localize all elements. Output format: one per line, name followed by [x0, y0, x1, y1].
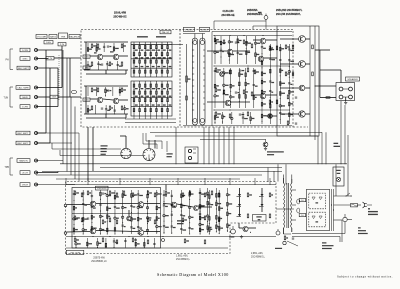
svg-text:2SB4/NA: 2SB4/NA [247, 9, 258, 12]
resistor R33 [251, 44, 253, 48]
capacitor C3 [101, 63, 103, 65]
rectifier left label box 1 [299, 199, 306, 202]
fuse F1 [351, 204, 358, 207]
preamp/tone dashed enclosure [81, 30, 293, 128]
transformer under cluster [284, 233, 292, 235]
wire eq stage [90, 55, 97, 57]
rotary switch S1 [121, 148, 131, 158]
resistor R61 [81, 193, 83, 197]
svg-text:2SC/,58 2SA560MO'L: 2SC/,58 2SA560MO'L [276, 13, 301, 16]
relay contact pair [297, 199, 300, 204]
wire nested routing to switches [142, 133, 144, 144]
diode D5 [261, 204, 264, 207]
wire tuner bus [36, 87, 62, 89]
resistor R70 [81, 218, 83, 222]
resistor R2 block [58, 43, 66, 46]
power amp bottom rail [66, 236, 276, 238]
svg-text:1,9B1,-A06,: 1,9B1,-A06, [176, 255, 188, 258]
resistor R46 [215, 112, 217, 116]
svg-text:2SC458MO,LC: 2SC458MO,LC [91, 261, 107, 263]
tone ladder low bus [131, 67, 172, 69]
resistor R1 block [46, 57, 54, 60]
balance control line [186, 44, 188, 125]
phono input jack J1 [35, 49, 38, 52]
svg-text:PAL-S2: PAL-S2 [162, 31, 170, 34]
resistor R51 [292, 45, 294, 49]
q23 ground [241, 235, 243, 236]
svg-text:MAIN IN: MAIN IN [19, 159, 28, 162]
svg-text:PH: PH [6, 60, 10, 62]
resistor R89 [247, 193, 249, 197]
power transistor Q15 [299, 111, 305, 117]
transistor Q11 [268, 114, 273, 119]
power amp low area [74, 238, 76, 242]
resistor R90 [269, 193, 271, 197]
resistor R83 [204, 193, 206, 197]
dc balance jack [231, 229, 236, 234]
resistor R12 [121, 88, 123, 92]
resistor R32 [243, 40, 245, 44]
resistor R5 [97, 44, 99, 48]
resistor R37 [229, 70, 231, 74]
tape monitor slide switch track 2 [200, 38, 205, 125]
speaker switch text [167, 153, 173, 154]
emitter resistor R55 [312, 45, 314, 49]
AC plug symbol [363, 202, 365, 208]
capacitor C21 [87, 217, 89, 219]
tone pot VR4 [150, 42, 152, 77]
resistor R87 [204, 216, 206, 220]
capacitor C22 electrolytic [162, 239, 165, 242]
wire eq bottom rail [84, 69, 128, 71]
long horizontal bus y179 [56, 178, 240, 180]
supply vertical feeds [335, 164, 337, 196]
transistor Q1 [97, 54, 103, 60]
resistor R68 [154, 193, 156, 197]
wire vertical bus v1 [45, 50, 47, 133]
diode D3 [238, 214, 241, 217]
rectifier diode D13 [319, 216, 322, 219]
diode string wire 2 [261, 188, 263, 194]
long horizontal bus y175 [36, 174, 262, 176]
capacitor C11 [239, 69, 241, 71]
tone pot VR3 [144, 42, 146, 77]
tape monitor label boxes [17, 159, 30, 163]
driver lower cluster [214, 112, 216, 124]
resistor R36 [215, 68, 217, 72]
resistor R10 [91, 88, 93, 92]
power amp wiring ch1 [67, 204, 90, 206]
transformer leads [283, 178, 285, 183]
resistor R64 [116, 193, 118, 197]
resistor R42 [243, 90, 245, 94]
resistor R13 [91, 106, 93, 110]
tone pot VR7 [167, 42, 169, 77]
eq left value boxes [83, 55, 90, 58]
tone pot VR14 [167, 81, 169, 116]
svg-text:BALANCE: BALANCE [69, 36, 80, 39]
svg-text:1RCH: 1RCH [22, 184, 28, 186]
long horizontal bus y171 [42, 171, 282, 173]
driver section frame [211, 32, 213, 127]
tone control 2nd channel frame [131, 81, 172, 116]
capacitor C100 reservoir [264, 16, 268, 20]
bus vertical mid [175, 127, 177, 164]
power amp box label text [177, 220, 184, 221]
transistor Q30 below preamp [263, 142, 268, 147]
input connector P2 [64, 232, 67, 235]
tape monitor slide switch track 1 [192, 38, 197, 125]
svg-text:2SB75-NW: 2SB75-NW [93, 257, 105, 259]
tone pot VR6 [161, 42, 163, 77]
transistor Q2 [113, 54, 119, 60]
eq ch1 lower cluster [87, 61, 89, 70]
rectifier left label box 2 [299, 214, 306, 217]
tape monitor group bracket [9, 158, 11, 175]
speaker terminal T4 [349, 95, 353, 99]
resistor R65 [123, 191, 125, 195]
capacitor C5 [101, 107, 103, 109]
power amp under-rail components [75, 238, 77, 248]
resistor R34 [269, 46, 271, 50]
svg-text:2SC456MO,L: 2SC456MO,L [251, 256, 266, 258]
capacitor C10 [235, 41, 237, 43]
preset label box on top edge [160, 30, 171, 34]
tone ladder top bus [131, 44, 172, 46]
tuner input label boxes [16, 86, 30, 90]
rectifier dashed box 2 [309, 212, 326, 227]
return wire bracket [292, 233, 345, 235]
switch text right [358, 227, 361, 228]
power amplifier dashed enclosure [66, 182, 277, 254]
capacitor C14 [295, 96, 297, 98]
resistor R11 [97, 88, 99, 92]
rectifier text [315, 202, 318, 203]
svg-text:2SC499-SC: 2SC499-SC [113, 15, 127, 18]
wire bus y139 [200, 139, 266, 141]
transistor Q9 [258, 56, 264, 62]
bus vertical left pair [87, 127, 89, 181]
transistor Q22 [194, 206, 199, 211]
svg-text:BASS: BASS [50, 36, 56, 39]
power amp top rail [66, 184, 276, 186]
speaker terminal box [336, 83, 355, 101]
emitter resistor R56 [312, 72, 314, 76]
thermal breaker Q31 [343, 217, 347, 221]
resistor R81 [182, 193, 184, 197]
resistor R31 [223, 40, 225, 44]
line out jack circle 1 [276, 231, 280, 235]
transistor Q8 [260, 38, 266, 44]
svg-text:REC SEPT: REC SEPT [18, 68, 30, 70]
power amp ch2 extra cluster [199, 188, 201, 232]
transistor Q5 [227, 49, 233, 55]
tone pot VR9 [139, 81, 141, 116]
driver output coupling cluster [261, 44, 263, 124]
tone pot VR8 [133, 81, 135, 116]
svg-text:VOLUME: VOLUME [37, 37, 47, 39]
eq stage labels [94, 52, 97, 53]
wire eq2 wiring [90, 98, 97, 100]
tone ladder mid bus [131, 58, 172, 60]
tape rec jack J7 [35, 132, 38, 135]
power amp ch2 cluster [163, 190, 165, 234]
speaker terminal T1 [339, 87, 343, 91]
mains transformer core [286, 183, 288, 228]
driver ch2 component cluster [214, 68, 216, 108]
mains transformer T1 primary winding [284, 183, 285, 187]
resistor R86 [182, 218, 184, 222]
resistor R63 [109, 191, 111, 195]
output stage wiring [280, 38, 299, 40]
speaker terminal wiring [343, 88, 349, 90]
transistor Q4 [113, 98, 119, 104]
AC mains text [368, 208, 370, 209]
diode D4 [261, 194, 264, 197]
resistor R84 [211, 191, 213, 195]
transistor Q16 [90, 201, 96, 207]
pilot lamp box [333, 167, 344, 186]
q23 wiring [238, 223, 240, 228]
rectifier right feed lines [331, 189, 333, 231]
output node wire [314, 85, 315, 86]
power switch S3 [346, 193, 350, 196]
svg-text:1CPB: 1CPB [22, 50, 28, 52]
resistor R38 [247, 68, 249, 72]
tone bottom stubs [133, 116, 135, 119]
tone pot VR5 [155, 42, 157, 77]
tone pot VR13 [161, 81, 163, 116]
resistor R62 [87, 191, 89, 195]
resistor R72 [109, 218, 111, 222]
resistor R85 [218, 193, 220, 197]
resistor R60 [74, 191, 76, 195]
resistor R91 [247, 214, 249, 218]
svg-text:TPB: TPB [5, 167, 10, 169]
phones jack assembly [185, 147, 198, 163]
tone block bottom bus [125, 118, 176, 120]
eq2 feedback wires [105, 114, 107, 118]
long horizontal bus y164 [60, 163, 347, 165]
capacitor C14b [295, 122, 297, 124]
svg-text:TRE: TRE [61, 37, 66, 39]
aux out jack J11 [35, 183, 38, 186]
supply down verticals [325, 132, 327, 164]
rectifier dashed box 1 [309, 193, 326, 209]
tone pot VR10 [144, 81, 146, 116]
output stage frame [277, 26, 319, 136]
resistor R40 [215, 88, 217, 92]
tone pot VR11 [150, 81, 152, 116]
switch S2 wiper [148, 155, 150, 161]
coupling component oval [71, 90, 76, 93]
svg-text:1MIC: 1MIC [22, 58, 28, 60]
tone 2nd channel buses [131, 96, 172, 98]
resistor R30 [215, 40, 217, 44]
resistor R6 [121, 44, 123, 48]
transistor Q19 [138, 230, 144, 236]
driver junction dots [214, 35, 215, 36]
svg-text:Schematic Diagram of Model: Schematic Diagram of Model X100 [157, 272, 229, 277]
resistor R39 [254, 70, 256, 74]
long horizontal bus y149 [52, 148, 121, 150]
part text 2SC1090 [334, 143, 339, 144]
eq ch2 upper cluster [87, 87, 89, 96]
resistor R67 [147, 191, 149, 195]
svg-text:CALL TAPE: CALL TAPE [17, 86, 29, 89]
resistor R7 [91, 62, 93, 66]
resistor R82 [189, 191, 191, 195]
rotary switch S2 [143, 149, 155, 161]
control label boxes row [36, 35, 47, 39]
thermal amp label box [253, 215, 267, 222]
svg-text:2SB,2SD 2SC553MO'L: 2SB,2SD 2SC553MO'L [276, 9, 303, 12]
driver ch1 component cluster [214, 36, 216, 64]
resistor R52 [285, 72, 287, 76]
wire output loop top [252, 26, 254, 30]
resistor R71 [102, 220, 104, 224]
resistor R47 [229, 114, 231, 118]
transformer secondary taps [292, 189, 296, 191]
wire lower feed right [277, 164, 279, 181]
svg-text:2,9B1,-A06,: 2,9B1,-A06, [251, 252, 263, 255]
tape rec label boxes [16, 131, 30, 135]
resistor R50 [285, 45, 287, 49]
driver wiring ch1 [207, 50, 227, 52]
rectifier diode D10 [312, 197, 315, 200]
wire jack risers [61, 50, 63, 88]
diode D1 [238, 194, 241, 197]
svg-text:REC SEPT: REC SEPT [18, 143, 30, 145]
tape rec jack J8 [35, 142, 38, 145]
svg-text:LPF-100M: LPF-100M [70, 253, 80, 255]
wire eq top rail [84, 41, 128, 43]
wire phono bus [36, 49, 62, 51]
svg-text:2SD382NHFL: 2SD382NHFL [247, 13, 263, 16]
capacitor C4 [107, 89, 109, 91]
speaker ground [345, 101, 347, 102]
tone control block frame [131, 42, 172, 77]
diode string wire [239, 188, 241, 194]
driver low rail [214, 109, 290, 111]
svg-text:2SC456MO,L: 2SC456MO,L [176, 259, 191, 261]
aux out label box [20, 183, 30, 187]
eq ch2 lower cluster [87, 105, 89, 114]
transistor Q3 [97, 97, 103, 103]
rectifier diode D11 [319, 197, 322, 200]
power amp inner frame [72, 188, 161, 249]
driver board label box [96, 186, 109, 190]
tone section dashed divider [179, 30, 181, 128]
wire jack group D to bus [36, 160, 63, 162]
svg-text:2LCH: 2LCH [22, 172, 28, 174]
transistor Q18 [90, 228, 96, 234]
wire switch feed top [183, 33, 205, 35]
transistor Q7 [225, 100, 231, 106]
svg-text:SPEAKER: SPEAKER [347, 78, 358, 81]
wire eq2 bottom rail [84, 113, 128, 115]
bus corner bends [51, 143, 53, 149]
wire AC cord [367, 204, 372, 206]
wire switch risers [125, 136, 127, 148]
small box above jacks [44, 41, 53, 44]
resistor R69 [74, 216, 76, 220]
tape monitor jack J9 [35, 159, 38, 162]
switch section text [101, 145, 108, 146]
resistor R53 [292, 72, 294, 76]
svg-text:TUN: TUN [4, 98, 9, 100]
power amp rail stub dots [75, 236, 76, 237]
resistor R48 [247, 112, 249, 116]
right channel wiring [163, 203, 171, 206]
driver wiring ch2 [207, 101, 225, 103]
long horizontal bus y155 [60, 155, 143, 157]
left riser bus wires [62, 50, 64, 164]
transistor Q10 [260, 93, 266, 99]
speaker terminal T3 [339, 95, 343, 99]
switch label box PRESS [184, 27, 195, 31]
tuner input jack J4 [35, 86, 38, 89]
power amp bottom label box [66, 250, 84, 254]
resistor R44 [269, 100, 271, 104]
tape rec wire extensions [36, 132, 79, 134]
eq ch1 upper cluster [87, 43, 89, 52]
resistor R4 [91, 44, 93, 48]
resistor R43 [251, 92, 253, 96]
resistor R9 [121, 62, 123, 66]
eq2 left value boxes [83, 98, 90, 101]
capacitor C2 [107, 45, 109, 47]
power amp ch1 cluster [73, 190, 75, 234]
supply horizontal feeds [334, 195, 353, 197]
transistor Q6 [220, 72, 225, 77]
tape monitor jack J10 [35, 171, 38, 174]
rectifier diode D12 [312, 216, 315, 219]
wire J11 [36, 184, 75, 186]
rectifier board solid frame [307, 189, 330, 230]
bus verticals preamp to switch row [203, 127, 205, 164]
speaker terminal T2 [349, 87, 353, 91]
resistor R15 [121, 106, 123, 110]
eq feedback wires [105, 70, 107, 74]
wire tone to driver [172, 44, 183, 46]
svg-text:2SA6,-NW: 2SA6,-NW [114, 12, 127, 15]
wire into preamp [62, 57, 81, 59]
transistor Q21 [171, 202, 177, 208]
driver mid rail [214, 65, 290, 67]
power amp mid rail [72, 213, 161, 215]
Q30 ground [265, 147, 267, 148]
power supply feed wires [276, 208, 294, 210]
line out jack circle 2 [283, 241, 286, 244]
input connector P1 [64, 204, 67, 207]
phono input label boxes [20, 48, 30, 52]
resistor R92 [269, 214, 271, 218]
power transistor Q14 [299, 85, 305, 91]
wire bus y136 [155, 135, 318, 137]
tuner input group bracket [9, 87, 11, 107]
wire vertical bus v2 [49, 68, 51, 143]
svg-text:2SC458-SE: 2SC458-SE [221, 14, 235, 17]
phono input group bracket [9, 49, 11, 70]
capacitor C13 [239, 113, 241, 115]
output transistor Q23 [243, 226, 248, 231]
svg-text:PW-1015: PW-1015 [97, 188, 107, 190]
wire speaker riser [340, 70, 342, 83]
tone pot VR12 [155, 81, 157, 116]
svg-text:C140-150: C140-150 [223, 10, 235, 13]
svg-text:SENTR: SENTR [201, 30, 209, 32]
